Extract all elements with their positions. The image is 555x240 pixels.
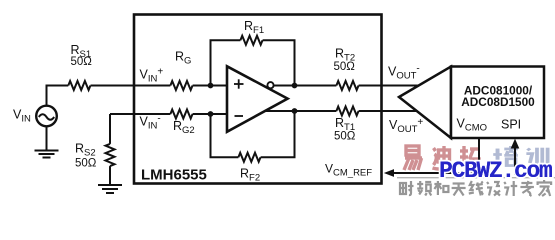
resistor R_F1 (240, 36, 262, 45)
feedback loop top: wire (211, 40, 241, 85)
watermark gray slogan 射频和天线设计专家 (400, 180, 551, 196)
svg-text:PCBWZ.com: PCBWZ.com (439, 158, 552, 184)
arrowhead into ADC (SPI) (511, 139, 520, 149)
LMH6555 box (134, 15, 382, 184)
svg-text:ADC08D1500: ADC08D1500 (461, 95, 535, 109)
wire: R_G2 to - input (193, 113, 228, 115)
node: bottom output (292, 108, 298, 114)
ADC box (451, 67, 544, 139)
wire: top rail from source to R_S1 (47, 86, 69, 107)
ground (under source) (35, 151, 59, 158)
feedback loop bottom: wire (211, 114, 239, 157)
wire: source to ground (46, 127, 48, 151)
wire: R_T1 to ADC (359, 110, 418, 112)
wire: bottom input rail (110, 113, 170, 115)
svg-text:50Ω: 50Ω (334, 61, 356, 73)
svg-text:50Ω: 50Ω (334, 130, 356, 142)
resistor R_S2 (vertical) (106, 144, 115, 166)
resistor R_T1 (336, 107, 358, 116)
wire: R_S2 branch down (109, 114, 111, 144)
resistor R_G (170, 81, 192, 90)
source V_IN (36, 106, 57, 127)
resistor R_T2 (336, 81, 358, 90)
resistor R_F2 (238, 153, 260, 162)
wire: V_CMO to V_CM_REF (392, 138, 479, 173)
op-amp + sign (234, 79, 244, 88)
wire: bottom output rail (264, 110, 336, 112)
wire: R_F1 to output node (263, 40, 295, 85)
resistor R_G2 (170, 110, 192, 119)
svg-text:50Ω: 50Ω (71, 56, 93, 68)
op-amp - sign (235, 115, 244, 117)
ground (under R_S2) (98, 185, 122, 193)
watermark red characters 易迪拓培训 (404, 146, 548, 170)
resistor R_S1 (68, 81, 90, 90)
svg-text:SPI: SPI (501, 118, 521, 132)
wire: top output rail (274, 85, 337, 87)
sine symbol (39, 114, 54, 120)
svg-text:50Ω: 50Ω (75, 157, 97, 169)
wire: R_S2 to ground (109, 166, 111, 185)
wire: R_F2 to output node (261, 111, 295, 157)
wire: SPI line (514, 147, 516, 175)
node: feedback tap + input (208, 83, 214, 89)
wire: R_G to + input (193, 85, 228, 87)
output inversion bubble (267, 82, 273, 88)
watermark divider line (397, 177, 555, 179)
node: top output (292, 83, 298, 89)
wire: R_T2 to ADC (359, 85, 419, 87)
op-amp U1 (227, 66, 288, 132)
wire: R_S1 to op-amp + input (91, 85, 171, 87)
node: feedback tap - input (208, 111, 214, 117)
arrowhead into LMH6555 (V_CM_REF) (384, 169, 394, 177)
ADC input triangle (399, 67, 451, 139)
svg-text:LMH6555: LMH6555 (141, 167, 207, 184)
